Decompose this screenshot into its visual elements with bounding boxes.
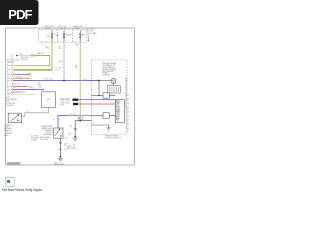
svg-text:PNK: PNK bbox=[19, 54, 22, 56]
svg-text:H8: H8 bbox=[118, 119, 120, 121]
svg-text:W/ LEVER: W/ LEVER bbox=[31, 138, 39, 140]
svg-text:OF SLACK: OF SLACK bbox=[6, 104, 15, 107]
svg-text:(MOMENT): (MOMENT) bbox=[4, 133, 13, 135]
svg-text:E5: E5 bbox=[118, 111, 120, 113]
junction node bbox=[60, 156, 62, 158]
fuse block box bbox=[39, 29, 87, 42]
svg-text:24 10A: 24 10A bbox=[45, 27, 51, 30]
svg-text:CONTROL MODULE: CONTROL MODULE bbox=[105, 138, 122, 140]
wire LT GRN vertical from F1 bbox=[51, 42, 53, 69]
wire to relay row bbox=[98, 81, 100, 96]
svg-text:1132: 1132 bbox=[38, 86, 42, 88]
svg-text:F6: F6 bbox=[118, 114, 120, 116]
connector box C204 bbox=[42, 92, 56, 108]
high mount stop lamp label bbox=[87, 28, 98, 34]
svg-text:DOWN): DOWN) bbox=[31, 140, 37, 142]
svg-text:22: 22 bbox=[125, 82, 127, 84]
svg-text:SW LEVER: SW LEVER bbox=[40, 139, 49, 141]
svg-text:15: 15 bbox=[53, 118, 55, 120]
svg-text:B2: B2 bbox=[118, 104, 120, 106]
wire BLK ground run bbox=[75, 120, 91, 122]
manual release label text bbox=[41, 125, 53, 136]
control module block bbox=[115, 100, 124, 123]
svg-text:(CLOSED: (CLOSED bbox=[31, 136, 39, 138]
module label text block bbox=[6, 97, 18, 107]
splice chip PNK bbox=[30, 54, 35, 56]
ground G304 bbox=[73, 138, 78, 141]
ground symbol internal bbox=[107, 128, 111, 131]
wire ORN row bbox=[13, 77, 30, 79]
wire TAN horizontal bbox=[14, 70, 53, 72]
wire DK BLU to lever switch bbox=[67, 115, 92, 117]
PDF badge bbox=[0, 0, 39, 25]
connector C1 strip bbox=[8, 63, 13, 94]
svg-text:4: 4 bbox=[47, 101, 48, 103]
motor M1 bbox=[111, 79, 116, 84]
switch SW3 (lever warning switch) bbox=[54, 128, 63, 138]
svg-text:C2: C2 bbox=[27, 111, 29, 113]
svg-text:SWITCH SIG: SWITCH SIG bbox=[61, 100, 71, 102]
svg-text:BLK: BLK bbox=[69, 134, 72, 136]
svg-text:ORN 1140: ORN 1140 bbox=[37, 53, 44, 55]
junction node bbox=[74, 136, 76, 138]
fuse F3 bbox=[79, 30, 81, 42]
svg-text:FUSE 23: FUSE 23 bbox=[59, 28, 66, 30]
svg-text:1134: 1134 bbox=[56, 70, 60, 72]
inline connector ticks bbox=[59, 142, 62, 144]
svg-text:732: 732 bbox=[75, 68, 78, 70]
page frame bbox=[6, 28, 135, 165]
SW2 label text bbox=[4, 123, 13, 136]
junction node bbox=[98, 80, 100, 82]
svg-text:OUT: OUT bbox=[116, 121, 119, 123]
svg-text:17: 17 bbox=[125, 92, 127, 94]
svg-text:RED 1140: RED 1140 bbox=[13, 84, 20, 86]
svg-text:21: 21 bbox=[125, 84, 127, 86]
svg-text:LT GRN: LT GRN bbox=[56, 68, 63, 70]
svg-text:1132: 1132 bbox=[84, 79, 87, 81]
svg-text:BRAKE: BRAKE bbox=[66, 34, 73, 37]
svg-text:LT GRN 1134: LT GRN 1134 bbox=[67, 114, 76, 116]
wire olive U-loop bbox=[14, 56, 50, 66]
svg-text:G1: G1 bbox=[73, 144, 75, 146]
junction node bbox=[63, 80, 65, 82]
wire BLK from SW3 to ground bbox=[59, 138, 61, 156]
svg-text:-2: -2 bbox=[126, 131, 127, 133]
svg-text:19: 19 bbox=[125, 88, 127, 90]
wire LT GRN segment bbox=[58, 115, 67, 117]
wire LT GRN horizontal to connector bbox=[14, 68, 53, 70]
svg-text:SWITCH: SWITCH bbox=[4, 131, 11, 133]
wire TAN from F3 bbox=[79, 42, 81, 121]
doc icon bbox=[5, 177, 15, 187]
svg-text:18: 18 bbox=[125, 90, 127, 92]
svg-text:CONTROL): CONTROL) bbox=[103, 75, 112, 77]
wire red row 4 bbox=[13, 91, 22, 93]
module title text bbox=[103, 62, 118, 76]
fuse F2 bbox=[63, 30, 65, 42]
relay box SB1 bbox=[103, 93, 109, 98]
node label text above strip bbox=[7, 59, 21, 64]
wire pale feed row bbox=[18, 55, 30, 57]
switch SW2 (park brake release switch) bbox=[8, 113, 21, 122]
pin stub labels outside bbox=[128, 94, 129, 130]
wire red row 2 bbox=[13, 86, 16, 88]
svg-text:(BELOW I/P): (BELOW I/P) bbox=[67, 148, 77, 150]
wire stub to stop lamp bbox=[87, 36, 89, 41]
svg-text:C304: C304 bbox=[64, 143, 68, 145]
wire DK BLU main bbox=[13, 80, 91, 82]
svg-text:BLK: BLK bbox=[79, 118, 82, 120]
svg-text:STOP LAMP: STOP LAMP bbox=[87, 32, 98, 35]
svg-text:MODULE: MODULE bbox=[21, 59, 28, 61]
wire from C204 to release switch bbox=[22, 108, 49, 117]
right module dashed box bbox=[91, 60, 127, 135]
separator line under module bbox=[7, 93, 37, 95]
svg-text:S208: S208 bbox=[59, 61, 63, 63]
svg-text:DK BLU 1132: DK BLU 1132 bbox=[44, 79, 53, 81]
svg-text:27 10A: 27 10A bbox=[74, 27, 80, 30]
fuse block labels bbox=[45, 25, 84, 30]
svg-text:G304: G304 bbox=[67, 146, 71, 148]
wire blue row 3 bbox=[13, 89, 44, 91]
svg-text:C204: C204 bbox=[47, 99, 51, 101]
svg-text:23: 23 bbox=[125, 80, 127, 82]
svg-text:1: 1 bbox=[88, 94, 89, 96]
svg-text:ORN 140: ORN 140 bbox=[16, 76, 22, 78]
ground G302 bbox=[58, 158, 63, 161]
svg-text:D4: D4 bbox=[118, 109, 120, 111]
svg-text:C304: C304 bbox=[69, 125, 73, 127]
svg-text:24: 24 bbox=[125, 78, 127, 80]
caption bar bbox=[7, 162, 20, 165]
svg-text:M: M bbox=[112, 79, 114, 83]
wire lavender from F2 bbox=[63, 42, 65, 80]
actuator connector block bbox=[113, 83, 115, 85]
svg-text:DK BLU: DK BLU bbox=[30, 88, 35, 90]
fuse F1 bbox=[51, 30, 53, 42]
svg-text:20: 20 bbox=[125, 86, 127, 88]
BLK label chip bbox=[78, 117, 83, 119]
svg-text:PDF: PDF bbox=[8, 7, 32, 22]
svg-text:S2: S2 bbox=[11, 55, 13, 57]
caption text bbox=[2, 188, 42, 192]
wire PNK row with splice bbox=[13, 74, 16, 76]
pin number column bbox=[125, 78, 127, 133]
relay box SB2 bbox=[103, 113, 109, 118]
svg-text:SWITCH: SWITCH bbox=[46, 132, 53, 134]
svg-text:G7: G7 bbox=[118, 116, 120, 118]
svg-text:C3: C3 bbox=[118, 106, 120, 108]
